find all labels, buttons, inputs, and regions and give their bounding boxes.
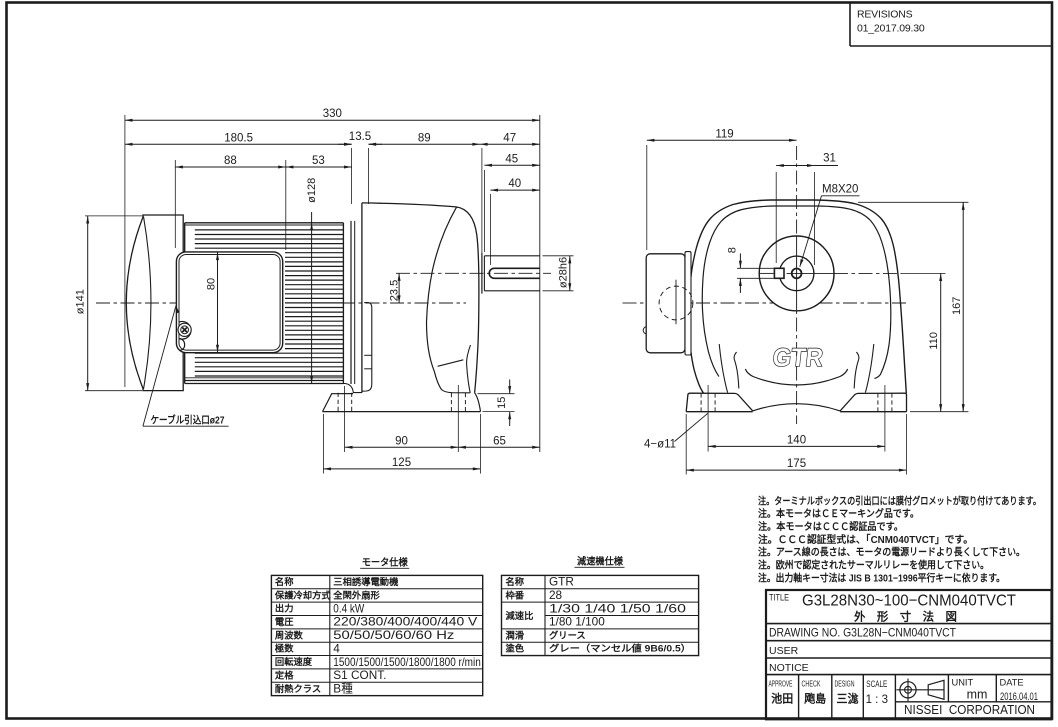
svg-text:1 : 3: 1 : 3 (866, 694, 888, 706)
svg-text:B種: B種 (333, 681, 353, 695)
svg-text:CHECK: CHECK (802, 679, 821, 689)
dimension 175 (base width) (685, 414, 687, 475)
front view: feet (686, 369, 906, 412)
svg-text:330: 330 (323, 108, 342, 120)
svg-text:G3L28N30~100−CNM040TVCT: G3L28N30~100−CNM040TVCT (802, 593, 1016, 610)
reducer spec table (502, 555, 699, 656)
svg-text:出力: 出力 (275, 603, 294, 614)
svg-text:13.5: 13.5 (349, 131, 371, 143)
svg-text:注。ＣＣＣ認証型式は、「CNM040TVCT」です。: 注。ＣＣＣ認証型式は、「CNM040TVCT」です。 (758, 533, 973, 546)
svg-text:GTR: GTR (771, 344, 824, 372)
svg-text:8: 8 (726, 247, 738, 253)
svg-text:125: 125 (392, 457, 411, 469)
front view: keyway (774, 268, 784, 278)
dimension 47 (481, 148, 483, 253)
svg-text:SCALE: SCALE (866, 679, 887, 689)
dimension 31 (key to shaft) (776, 152, 838, 265)
svg-text:4: 4 (333, 641, 340, 655)
svg-text:耐熱クラス: 耐熱クラス (275, 683, 321, 694)
dimension 89 (369, 132, 481, 146)
svg-text:定格: 定格 (275, 669, 294, 680)
svg-text:三浝: 三浝 (837, 692, 860, 706)
front view: shaft circles (759, 236, 902, 311)
svg-text:110: 110 (928, 332, 940, 350)
svg-text:2016.04.01: 2016.04.01 (1000, 691, 1038, 703)
left view: output shaft boss (481, 253, 483, 294)
svg-text:90: 90 (395, 435, 408, 447)
svg-text:注。本モータはＣＥマーキング品です。: 注。本モータはＣＥマーキング品です。 (758, 507, 919, 520)
svg-text:01_2017.09.30: 01_2017.09.30 (857, 23, 925, 35)
svg-text:減速比: 減速比 (506, 610, 534, 621)
left view: terminal box cover screw (178, 322, 191, 351)
title block (766, 590, 1052, 719)
svg-text:極数: 極数 (274, 643, 294, 654)
front view: gearbox dome outline (outer) (689, 200, 907, 393)
svg-text:回転速度: 回転速度 (275, 656, 313, 667)
svg-text:注。アース線の長さは、モータの電源リードより長くして下さい。: 注。アース線の長さは、モータの電源リードより長くして下さい。 (758, 546, 1025, 559)
svg-text:4−ø11: 4−ø11 (644, 439, 676, 451)
left view: motor centerline (96, 302, 466, 304)
svg-text:140: 140 (787, 434, 806, 446)
dimension 45 (483, 170, 485, 252)
svg-text:15: 15 (496, 397, 508, 409)
svg-text:mm: mm (967, 688, 988, 702)
svg-text:APPROVE: APPROVE (769, 679, 793, 689)
svg-text:DATE: DATE (1000, 678, 1024, 688)
svg-text:三相誘導電動機: 三相誘導電動機 (333, 576, 399, 587)
svg-text:23.5: 23.5 (388, 280, 400, 301)
left view: gearbox base/feet (323, 384, 481, 412)
svg-text:モータ仕様: モータ仕様 (362, 556, 408, 569)
leader M8X20 (tap) (800, 184, 860, 267)
svg-text:1500/1500/1500/1800/1800 r/min: 1500/1500/1500/1800/1800 r/min (333, 655, 481, 669)
dimension 140 (hole spacing) (707, 385, 709, 452)
front view: legs/ribs (719, 344, 874, 393)
dimension 90 (hole spacing) (344, 386, 346, 452)
svg-text:池田: 池田 (771, 692, 793, 706)
svg-text:ø128: ø128 (306, 178, 318, 203)
dimension 125 (base width) (322, 414, 324, 474)
svg-text:S1 CONT.: S1 CONT. (333, 668, 386, 682)
svg-text:40: 40 (508, 178, 521, 190)
leader 4-o11 (mounting holes) (644, 413, 708, 450)
svg-text:注。本モータはＣＣＣ認証品です。: 注。本モータはＣＣＣ認証品です。 (758, 520, 903, 533)
svg-text:GTR: GTR (549, 575, 574, 589)
svg-text:31: 31 (823, 152, 836, 164)
svg-text:180.5: 180.5 (224, 132, 253, 144)
front view: vertical centerline (796, 146, 798, 424)
svg-text:外 形 寸 法 図: 外 形 寸 法 図 (853, 609, 957, 623)
front view: GTR logo (771, 344, 824, 372)
left view: output shaft with keyway (484, 256, 539, 291)
svg-text:減速機仕様: 減速機仕様 (577, 555, 623, 568)
svg-text:名称: 名称 (506, 576, 525, 587)
svg-text:注。欧州で認定されたサーマルリレーを使用して下さい。: 注。欧州で認定されたサーマルリレーを使用して下さい。 (758, 559, 989, 572)
dimension 8 (keyway width) (726, 247, 773, 293)
svg-text:TITLE: TITLE (769, 593, 789, 604)
dimension 40 (489, 194, 491, 265)
left view: terminal box (176, 252, 282, 353)
svg-text:175: 175 (787, 458, 806, 470)
svg-text:REVISIONS: REVISIONS (857, 9, 913, 21)
svg-text:NOTICE: NOTICE (769, 662, 809, 674)
svg-text:M8X20: M8X20 (822, 184, 858, 196)
dimension 180.5 (125, 132, 352, 146)
dimension 13.5 (338, 131, 382, 204)
svg-text:塗色: 塗色 (506, 643, 525, 654)
svg-text:USER: USER (769, 645, 799, 657)
svg-text:名称: 名称 (275, 576, 294, 587)
svg-text:DESIGN: DESIGN (835, 679, 855, 689)
svg-text:0.4 kW: 0.4 kW (333, 601, 365, 615)
left view: output shaft centerline (396, 272, 551, 274)
dimension 167 (overall height) (858, 201, 969, 203)
svg-text:220/380/400/400/440 V: 220/380/400/400/440 V (333, 615, 477, 629)
svg-text:グレー（マンセル値 9B6/0.5）: グレー（マンセル値 9B6/0.5） (549, 643, 691, 654)
svg-text:飑島: 飑島 (804, 692, 826, 706)
dimension 15 (foot height) (478, 380, 515, 427)
svg-text:167: 167 (951, 297, 963, 315)
dimension o28h6 (shaft dia) (543, 255, 574, 257)
dimension o141 (vertical left) (85, 215, 144, 217)
svg-text:グリース: グリース (549, 629, 586, 640)
dimension 119 (646, 145, 648, 250)
front view: terminal box (side) (643, 252, 691, 355)
svg-text:ケーブル引込口ø27: ケーブル引込口ø27 (151, 413, 225, 426)
svg-text:ø28h6: ø28h6 (558, 257, 570, 288)
svg-text:88: 88 (224, 155, 237, 167)
svg-text:1/30 1/40 1/50 1/60: 1/30 1/40 1/50 1/60 (549, 601, 687, 615)
svg-text:53: 53 (312, 155, 325, 167)
dimension 53 (286, 155, 352, 169)
svg-text:80: 80 (205, 278, 217, 290)
left view: motor body with cooling fins (185, 223, 344, 384)
leader: cable entry o27 label (143, 306, 229, 427)
dimension o128 (motor body) (306, 178, 318, 384)
dimension 23.5 (shaft offset) (388, 273, 400, 303)
svg-text:周波数: 周波数 (275, 629, 304, 640)
svg-text:65: 65 (493, 435, 506, 447)
svg-text:1/80 1/100: 1/80 1/100 (549, 615, 605, 629)
left view: gearbox housing (362, 203, 479, 393)
dimension 110 (axis height) (902, 272, 946, 274)
svg-text:注。出力軸キー寸法は JIS B 1301−1996平行キー: 注。出力軸キー寸法は JIS B 1301−1996平行キーに依ります。 (758, 571, 1005, 584)
svg-text:UNIT: UNIT (952, 678, 974, 688)
front view: cable entry hidden circle (659, 280, 693, 325)
svg-text:保護冷却方式: 保護冷却方式 (274, 589, 331, 600)
svg-text:89: 89 (418, 132, 431, 144)
projection symbol (897, 679, 945, 701)
dimension 330 (top) (124, 115, 126, 387)
svg-text:潤滑: 潤滑 (506, 629, 525, 640)
svg-text:注。ターミナルボックスの引出口には膜付グロメットが取り付けて: 注。ターミナルボックスの引出口には膜付グロメットが取り付けてあります。 (758, 494, 1041, 507)
svg-text:28: 28 (549, 588, 563, 602)
revisions box (850, 3, 1052, 46)
dimension 80 (terminal box) (205, 253, 219, 353)
dimension 65 (458, 435, 540, 449)
left view: motor end bracket lines (350, 221, 352, 384)
svg-text:45: 45 (505, 153, 518, 165)
svg-text:DRAWING NO. G3L28N−CNM040TVCT: DRAWING NO. G3L28N−CNM040TVCT (769, 626, 956, 640)
svg-text:NISSEI CORPORATION: NISSEI CORPORATION (904, 702, 1035, 717)
svg-text:50/50/50/60/60 Hz: 50/50/50/60/60 Hz (333, 628, 454, 642)
front view: motor axis centerline (623, 302, 910, 304)
motor spec table (271, 556, 482, 696)
svg-text:47: 47 (503, 132, 516, 144)
svg-text:全閑外扇形: 全閑外扇形 (332, 589, 380, 600)
svg-text:ø141: ø141 (74, 289, 86, 314)
svg-text:電圧: 電圧 (275, 616, 294, 627)
dimension 88 (174, 160, 176, 248)
svg-text:119: 119 (715, 128, 733, 140)
svg-text:枠番: 枠番 (506, 589, 525, 600)
left view: fan cover (rear cap) (126, 215, 183, 391)
front view: gearbox dome rim (inner line) (702, 206, 891, 379)
